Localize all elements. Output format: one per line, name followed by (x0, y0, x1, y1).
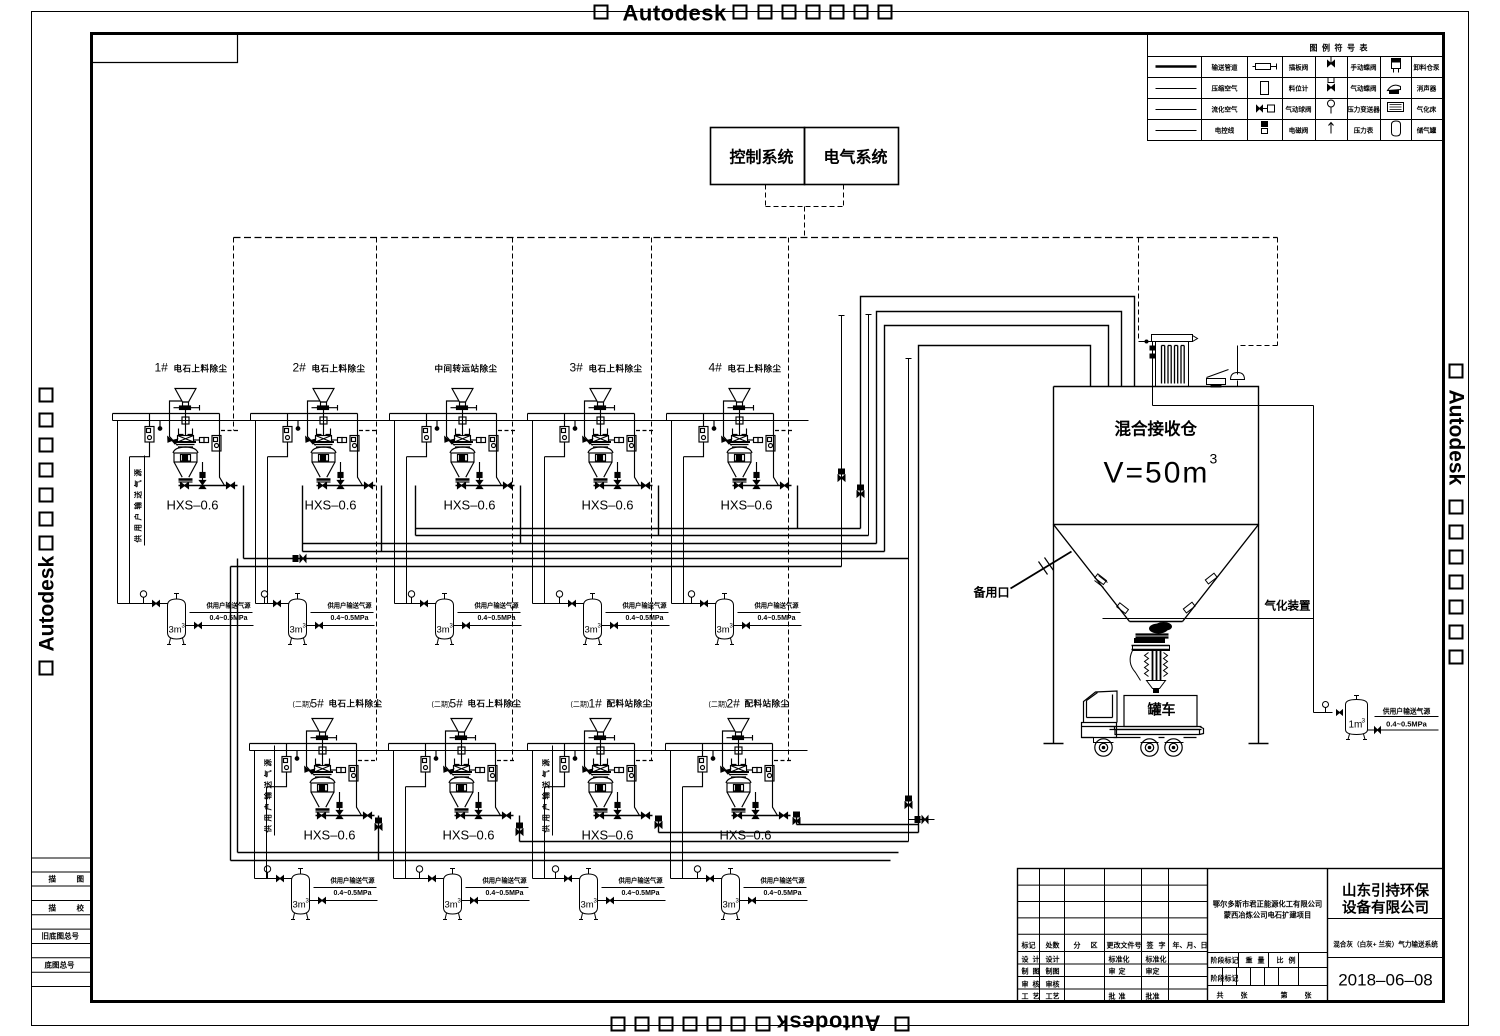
silo support columns (1044, 525, 1269, 744)
pump unit P1 1#电石上料除尘 HXS-0.6 (113, 361, 241, 513)
svg-text:标准化: 标准化 (1145, 955, 1167, 964)
svg-text:艺: 艺 (1033, 992, 1040, 1001)
svg-text:罐车: 罐车 (1147, 702, 1176, 718)
bag filter on silo roof (1152, 335, 1198, 387)
svg-text:底图总号: 底图总号 (45, 960, 75, 970)
aeration manifold line (1103, 618, 1314, 620)
svg-text:电气系统: 电气系统 (824, 148, 888, 167)
spare port 备用口 (1011, 552, 1072, 589)
legend symbols (1253, 57, 1404, 137)
svg-text:备用口: 备用口 (973, 585, 1010, 600)
svg-text:分: 分 (1074, 941, 1081, 950)
dashed connection from control boxes (766, 185, 844, 238)
svg-text:设: 设 (1022, 955, 1030, 964)
pump unit PB4 (二期)2#配料站除尘 HXS-0.6 (666, 697, 794, 843)
air tank TB3 3m3 (552, 866, 665, 920)
pipe drop to tank T1 (118, 421, 162, 604)
svg-text:山东引持环保: 山东引持环保 (1342, 882, 1429, 900)
top row unit connecting line (113, 414, 809, 421)
control system box 控制系统 (711, 128, 805, 185)
air tank TB4 3m3 (694, 866, 807, 920)
pipe drop to tank T2 (256, 421, 283, 604)
svg-text:混合接收仓: 混合接收仓 (1115, 419, 1198, 439)
svg-text:气化装置: 气化装置 (1264, 599, 1311, 613)
svg-text:0.4~0.5MPa: 0.4~0.5MPa (622, 890, 660, 897)
title block left labels (1021, 941, 1208, 1001)
svg-text:5#: 5# (450, 697, 464, 711)
svg-text:审: 审 (1022, 980, 1029, 989)
filter inlet with valves (1139, 342, 1314, 713)
conveying pipe loop A (861, 297, 1135, 529)
watermark top: Autodesk educational (595, 1, 892, 26)
svg-text:Autodesk: Autodesk (1445, 390, 1468, 486)
svg-text:供用户输送气源: 供用户输送气源 (326, 601, 372, 610)
svg-text:HXS–0.6: HXS–0.6 (305, 498, 357, 513)
svg-text:3m: 3m (293, 900, 306, 911)
air tank TB1 3m3 (264, 866, 377, 920)
svg-text:HXS–0.6: HXS–0.6 (582, 498, 634, 513)
svg-text:旧底图总号: 旧底图总号 (42, 931, 80, 941)
svg-text:阶段标记: 阶段标记 (1211, 956, 1239, 965)
svg-text:图: 图 (77, 875, 85, 884)
svg-text:3: 3 (1210, 451, 1218, 467)
pump unit P4 3#电石上料除尘 HXS-0.6 (528, 361, 656, 513)
silencer on silo roof (1207, 370, 1229, 385)
pump unit PB2 (二期)5#电石上料除尘 HXS-0.6 (389, 697, 522, 843)
svg-text:0.4~0.5MPa: 0.4~0.5MPa (331, 615, 369, 622)
svg-text:(二期): (二期) (293, 701, 312, 709)
svg-text:压缩空气: 压缩空气 (1212, 84, 1239, 93)
svg-text:供用户输送气源: 供用户输送气源 (1382, 707, 1431, 716)
rotated label 供用户输送气源 at x=545 (541, 756, 551, 834)
conveying pipe loop C (885, 326, 1109, 552)
svg-text:制: 制 (1022, 967, 1029, 976)
svg-text:气化床: 气化床 (1416, 105, 1437, 114)
tank truck 罐车 (1082, 691, 1204, 743)
svg-text:蒙西冶炼公司电石扩建项目: 蒙西冶炼公司电石扩建项目 (1224, 911, 1312, 920)
pump unit P5 4#电石上料除尘 HXS-0.6 (667, 361, 795, 513)
top-left attachment box (93, 35, 238, 63)
air tank T1 3m3 (140, 591, 253, 645)
svg-text:供用户输送气源: 供用户输送气源 (541, 756, 551, 834)
svg-text:输送管道: 输送管道 (1212, 63, 1239, 72)
svg-text:气动球阀: 气动球阀 (1285, 105, 1313, 114)
svg-text:电石上料除尘: 电石上料除尘 (329, 699, 383, 709)
svg-text:电石上料除尘: 电石上料除尘 (174, 364, 228, 374)
svg-text:0.4~0.5MPa: 0.4~0.5MPa (1386, 720, 1427, 729)
vent riser pipes (839, 316, 845, 567)
svg-text:3m: 3m (585, 625, 598, 636)
pipe drop to tank T5 (672, 421, 710, 604)
svg-text:HXS–0.6: HXS–0.6 (167, 498, 219, 513)
rotated label 供用户输送气源 at x=267 (263, 756, 273, 834)
svg-text:1#: 1# (155, 361, 169, 375)
svg-text:HXS–0.6: HXS–0.6 (443, 828, 495, 843)
watermark left (rotated -90) (36, 556, 59, 652)
svg-text:审定: 审定 (1146, 967, 1160, 976)
dashed control bus line (234, 237, 1278, 239)
svg-text:描: 描 (49, 903, 57, 913)
svg-text:3m: 3m (581, 900, 594, 911)
svg-text:量: 量 (1258, 956, 1265, 965)
air tank T4 3m3 (556, 591, 669, 645)
svg-text:审: 审 (1109, 967, 1116, 976)
svg-text:共: 共 (1217, 991, 1224, 1000)
svg-text:压力表: 压力表 (1354, 126, 1374, 135)
svg-text:Autodesk: Autodesk (36, 556, 59, 652)
svg-text:准: 准 (1119, 992, 1126, 1001)
svg-text:手动蝶阀: 手动蝶阀 (1351, 63, 1378, 72)
legend labels (1212, 63, 1441, 135)
svg-text:3m: 3m (437, 625, 450, 636)
svg-text:标准化: 标准化 (1108, 955, 1130, 964)
bottom row unit connecting line (250, 744, 808, 751)
svg-text:消声器: 消声器 (1417, 84, 1437, 93)
svg-text:核: 核 (1033, 980, 1040, 989)
legend line samples (1156, 67, 1197, 131)
svg-text:例: 例 (1289, 956, 1296, 965)
svg-text:电石上料除尘: 电石上料除尘 (589, 364, 643, 374)
svg-text:批准: 批准 (1146, 992, 1160, 1001)
svg-text:工: 工 (1022, 993, 1029, 1001)
svg-text:配料站除尘: 配料站除尘 (745, 699, 790, 709)
svg-text:供用户输送气源: 供用户输送气源 (133, 466, 143, 544)
svg-text:供用户输送气源: 供用户输送气源 (617, 876, 663, 885)
svg-text:计: 计 (1033, 955, 1040, 964)
svg-text:0.4~0.5MPa: 0.4~0.5MPa (210, 615, 248, 622)
svg-text:供用户输送气源: 供用户输送气源 (753, 601, 799, 610)
svg-text:3m: 3m (445, 900, 458, 911)
dashed control drops to pump units (234, 238, 1278, 761)
top row discharge headers (231, 486, 909, 861)
svg-text:控制系统: 控制系统 (730, 148, 794, 167)
bottom-left revision table (32, 858, 92, 987)
svg-text:0.4~0.5MPa: 0.4~0.5MPa (764, 890, 802, 897)
svg-text:压力变送器: 压力变送器 (1347, 105, 1380, 114)
air tank 1m3 (1314, 696, 1439, 740)
telescopic loading spout bellows (1130, 651, 1167, 693)
svg-text:3: 3 (1362, 718, 1366, 725)
watermark bottom (rotated 180) (612, 1011, 909, 1036)
svg-text:供用户输送气源: 供用户输送气源 (473, 601, 519, 610)
svg-text:字: 字 (1159, 941, 1166, 950)
svg-text:校: 校 (77, 903, 85, 913)
svg-text:混合灰（白灰+ 兰炭）气力输送系统: 混合灰（白灰+ 兰炭）气力输送系统 (1333, 940, 1438, 949)
svg-text:0.4~0.5MPa: 0.4~0.5MPa (758, 615, 796, 622)
title block left grid (1018, 869, 1208, 1002)
svg-text:3m: 3m (169, 625, 182, 636)
svg-text:2#: 2# (293, 361, 307, 375)
svg-text:描: 描 (49, 874, 57, 884)
svg-text:0.4~0.5MPa: 0.4~0.5MPa (334, 890, 372, 897)
air tank T2 3m3 (261, 591, 374, 645)
svg-text:3#: 3# (570, 361, 584, 375)
svg-text:区: 区 (1091, 942, 1098, 950)
svg-text:供用户输送气源: 供用户输送气源 (329, 876, 375, 885)
svg-text:制图: 制图 (1046, 967, 1060, 976)
svg-text:5#: 5# (311, 697, 325, 711)
svg-text:Autodesk: Autodesk (623, 1, 728, 26)
svg-text:配料站除尘: 配料站除尘 (607, 699, 652, 709)
watermark right (rotated 90) (1445, 390, 1468, 486)
svg-text:HXS–0.6: HXS–0.6 (721, 498, 773, 513)
svg-text:供用户输送气源: 供用户输送气源 (481, 876, 527, 885)
svg-text:0.4~0.5MPa: 0.4~0.5MPa (486, 890, 524, 897)
svg-text:比: 比 (1277, 956, 1284, 965)
svg-text:料位计: 料位计 (1289, 84, 1309, 93)
svg-text:供用户输送气源: 供用户输送气源 (205, 601, 251, 610)
pipe drop to tank TB2 (394, 751, 438, 879)
svg-text:(二期): (二期) (571, 701, 590, 709)
svg-text:设备有限公司: 设备有限公司 (1342, 899, 1429, 917)
svg-text:1m: 1m (1349, 720, 1363, 731)
svg-text:审核: 审核 (1046, 980, 1060, 989)
conveying pipe loop D (919, 346, 1091, 833)
svg-text:0.4~0.5MPa: 0.4~0.5MPa (478, 615, 516, 622)
svg-text:第: 第 (1281, 991, 1288, 1000)
svg-text:HXS–0.6: HXS–0.6 (444, 498, 496, 513)
svg-text:处数: 处数 (1045, 941, 1061, 950)
bottom row discharge headers (231, 816, 919, 861)
pump unit PB1 (二期)5#电石上料除尘 HXS-0.6 (250, 697, 383, 843)
svg-text:储气罐: 储气罐 (1416, 126, 1437, 135)
air tank T5 3m3 (688, 591, 801, 645)
svg-text:1#: 1# (589, 697, 603, 711)
svg-text:电磁阀: 电磁阀 (1289, 126, 1309, 135)
svg-text:更改文件号: 更改文件号 (1107, 941, 1142, 950)
svg-text:Autodesk: Autodesk (776, 1011, 881, 1036)
svg-text:供用户输送气源: 供用户输送气源 (759, 876, 805, 885)
mixing receiving silo 混合接收仓 V=50m3 (1054, 387, 1259, 622)
svg-text:供用户输送气源: 供用户输送气源 (263, 756, 273, 834)
svg-text:电石上料除尘: 电石上料除尘 (728, 364, 782, 374)
svg-text:签: 签 (1146, 941, 1155, 950)
svg-text:张: 张 (1241, 991, 1249, 1000)
svg-text:3m: 3m (723, 900, 736, 911)
svg-text:中间转运站除尘: 中间转运站除尘 (435, 364, 498, 374)
pipe drop to tank TB3 (533, 751, 574, 879)
rotated label 供用户输送气源 at x=137 (133, 466, 143, 544)
air tank TB2 3m3 (416, 866, 529, 920)
svg-text:电控线: 电控线 (1215, 126, 1235, 135)
conveying pipe loop B (877, 312, 1122, 544)
svg-text:鄂尔多斯市君正能源化工有限公司: 鄂尔多斯市君正能源化工有限公司 (1213, 900, 1322, 909)
svg-text:4#: 4# (709, 361, 723, 375)
svg-text:气动蝶阀: 气动蝶阀 (1350, 84, 1378, 93)
pump unit PB3 (二期)1#配料站除尘 HXS-0.6 (528, 697, 656, 843)
svg-text:2018–06–08: 2018–06–08 (1338, 971, 1433, 990)
svg-text:电石上料除尘: 电石上料除尘 (468, 699, 522, 709)
electric system box 电气系统 (805, 128, 899, 185)
svg-text:供用户输送气源: 供用户输送气源 (621, 601, 667, 610)
pump unit P2 2#电石上料除尘 HXS-0.6 (251, 361, 379, 513)
svg-text:HXS–0.6: HXS–0.6 (582, 828, 634, 843)
svg-text:阶段标记: 阶段标记 (1211, 974, 1239, 983)
svg-text:0.4~0.5MPa: 0.4~0.5MPa (626, 615, 664, 622)
pipe drop to tank T3 (395, 421, 430, 604)
svg-text:3m: 3m (290, 625, 303, 636)
svg-text:(二期): (二期) (709, 701, 728, 709)
svg-text:卸料仓泵: 卸料仓泵 (1414, 63, 1441, 72)
svg-text:标记: 标记 (1021, 941, 1036, 950)
svg-text:插板阀: 插板阀 (1289, 63, 1309, 72)
svg-text:图例符号表: 图例符号表 (1310, 43, 1373, 53)
air tank T3 3m3 (408, 591, 521, 645)
pipe drop to tank T4 (533, 421, 578, 604)
rotary discharge valve under silo (1132, 623, 1172, 651)
pipe drop to tank TB1 (255, 751, 286, 879)
svg-text:电石上料除尘: 电石上料除尘 (312, 364, 366, 374)
svg-text:流化空气: 流化空气 (1212, 105, 1239, 114)
svg-text:HXS–0.6: HXS–0.6 (720, 828, 772, 843)
svg-text:(二期): (二期) (432, 701, 451, 709)
title block frame (1018, 869, 1444, 1002)
svg-text:张: 张 (1305, 991, 1313, 1000)
pump unit P3 中间转运站除尘 HXS-0.6 (390, 364, 518, 513)
aeration pads on cone (1095, 573, 1218, 613)
svg-text:V=50m: V=50m (1104, 457, 1210, 490)
pipe drop to tank TB4 (671, 751, 716, 879)
pressure relief valve on silo roof (1237, 346, 1239, 387)
legend table frame (1148, 35, 1443, 141)
valves on vent and header pipes (838, 469, 845, 481)
svg-text:批: 批 (1109, 992, 1116, 1001)
svg-text:设计: 设计 (1046, 955, 1060, 964)
truck wheels (1095, 739, 1182, 756)
svg-text:定: 定 (1119, 967, 1126, 976)
svg-text:年、月、日: 年、月、日 (1173, 941, 1208, 950)
svg-text:工艺: 工艺 (1046, 992, 1060, 1001)
svg-text:3m: 3m (717, 625, 730, 636)
svg-text:图: 图 (1033, 967, 1040, 976)
svg-text:HXS–0.6: HXS–0.6 (304, 828, 356, 843)
svg-text:重: 重 (1246, 956, 1253, 965)
svg-text:2#: 2# (727, 697, 741, 711)
